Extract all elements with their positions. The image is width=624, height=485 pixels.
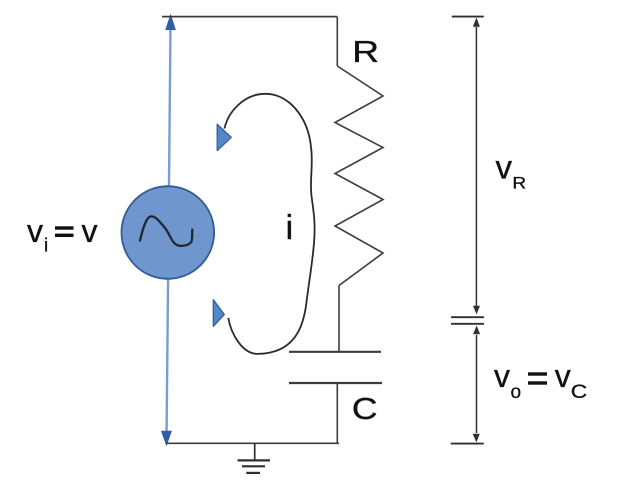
svg-text:i: i bbox=[286, 209, 294, 247]
capacitor C (top plate) bbox=[289, 351, 381, 353]
svg-text:C: C bbox=[352, 392, 378, 426]
dimension middle tick 2 bbox=[451, 323, 484, 325]
dimension vR: up arrowhead bbox=[473, 18, 480, 27]
wire resistor to capacitor bbox=[338, 286, 340, 352]
current loop wire i bbox=[225, 94, 315, 354]
dimension vo: vertical line bbox=[476, 335, 478, 433]
svg-text:R: R bbox=[512, 173, 526, 192]
dimension vR: down arrowhead bbox=[473, 306, 480, 315]
current loop arrowhead upper bbox=[217, 124, 231, 150]
svg-text:v: v bbox=[555, 358, 571, 394]
wire right vertical top bbox=[336, 17, 338, 66]
svg-text:R: R bbox=[352, 35, 379, 69]
dimension middle tick 1 bbox=[451, 316, 484, 318]
label vo = vC bbox=[494, 358, 587, 403]
wire capacitor to bottom bbox=[336, 383, 338, 443]
ground bbox=[238, 443, 271, 473]
svg-text:v: v bbox=[496, 149, 513, 186]
label vi = v bbox=[27, 213, 98, 257]
resistor R bbox=[335, 66, 383, 286]
svg-text:v: v bbox=[494, 358, 510, 394]
current loop arrowhead lower bbox=[213, 300, 224, 327]
svg-text:o: o bbox=[511, 382, 522, 403]
dimension vR: vertical line bbox=[475, 27, 477, 306]
dimension vo: bottom tick bbox=[451, 443, 484, 445]
dimension vo: up arrowhead bbox=[473, 326, 480, 335]
svg-text:i: i bbox=[44, 236, 48, 257]
wire bottom horizontal bbox=[166, 442, 339, 444]
svg-text:v: v bbox=[27, 213, 43, 249]
svg-text:C: C bbox=[571, 382, 587, 403]
dimension vo: down arrowhead bbox=[473, 434, 480, 443]
dimension vR: top tick bbox=[452, 16, 484, 18]
voltage source V1 bbox=[122, 186, 215, 279]
capacitor C (bottom plate) bbox=[289, 382, 382, 384]
svg-text:v: v bbox=[82, 213, 98, 249]
wire top horizontal bbox=[162, 16, 337, 18]
label vR bbox=[496, 149, 527, 192]
source voltage arrow vi (blue double-headed line) bbox=[161, 14, 176, 447]
sine symbol inside source bbox=[140, 216, 192, 245]
